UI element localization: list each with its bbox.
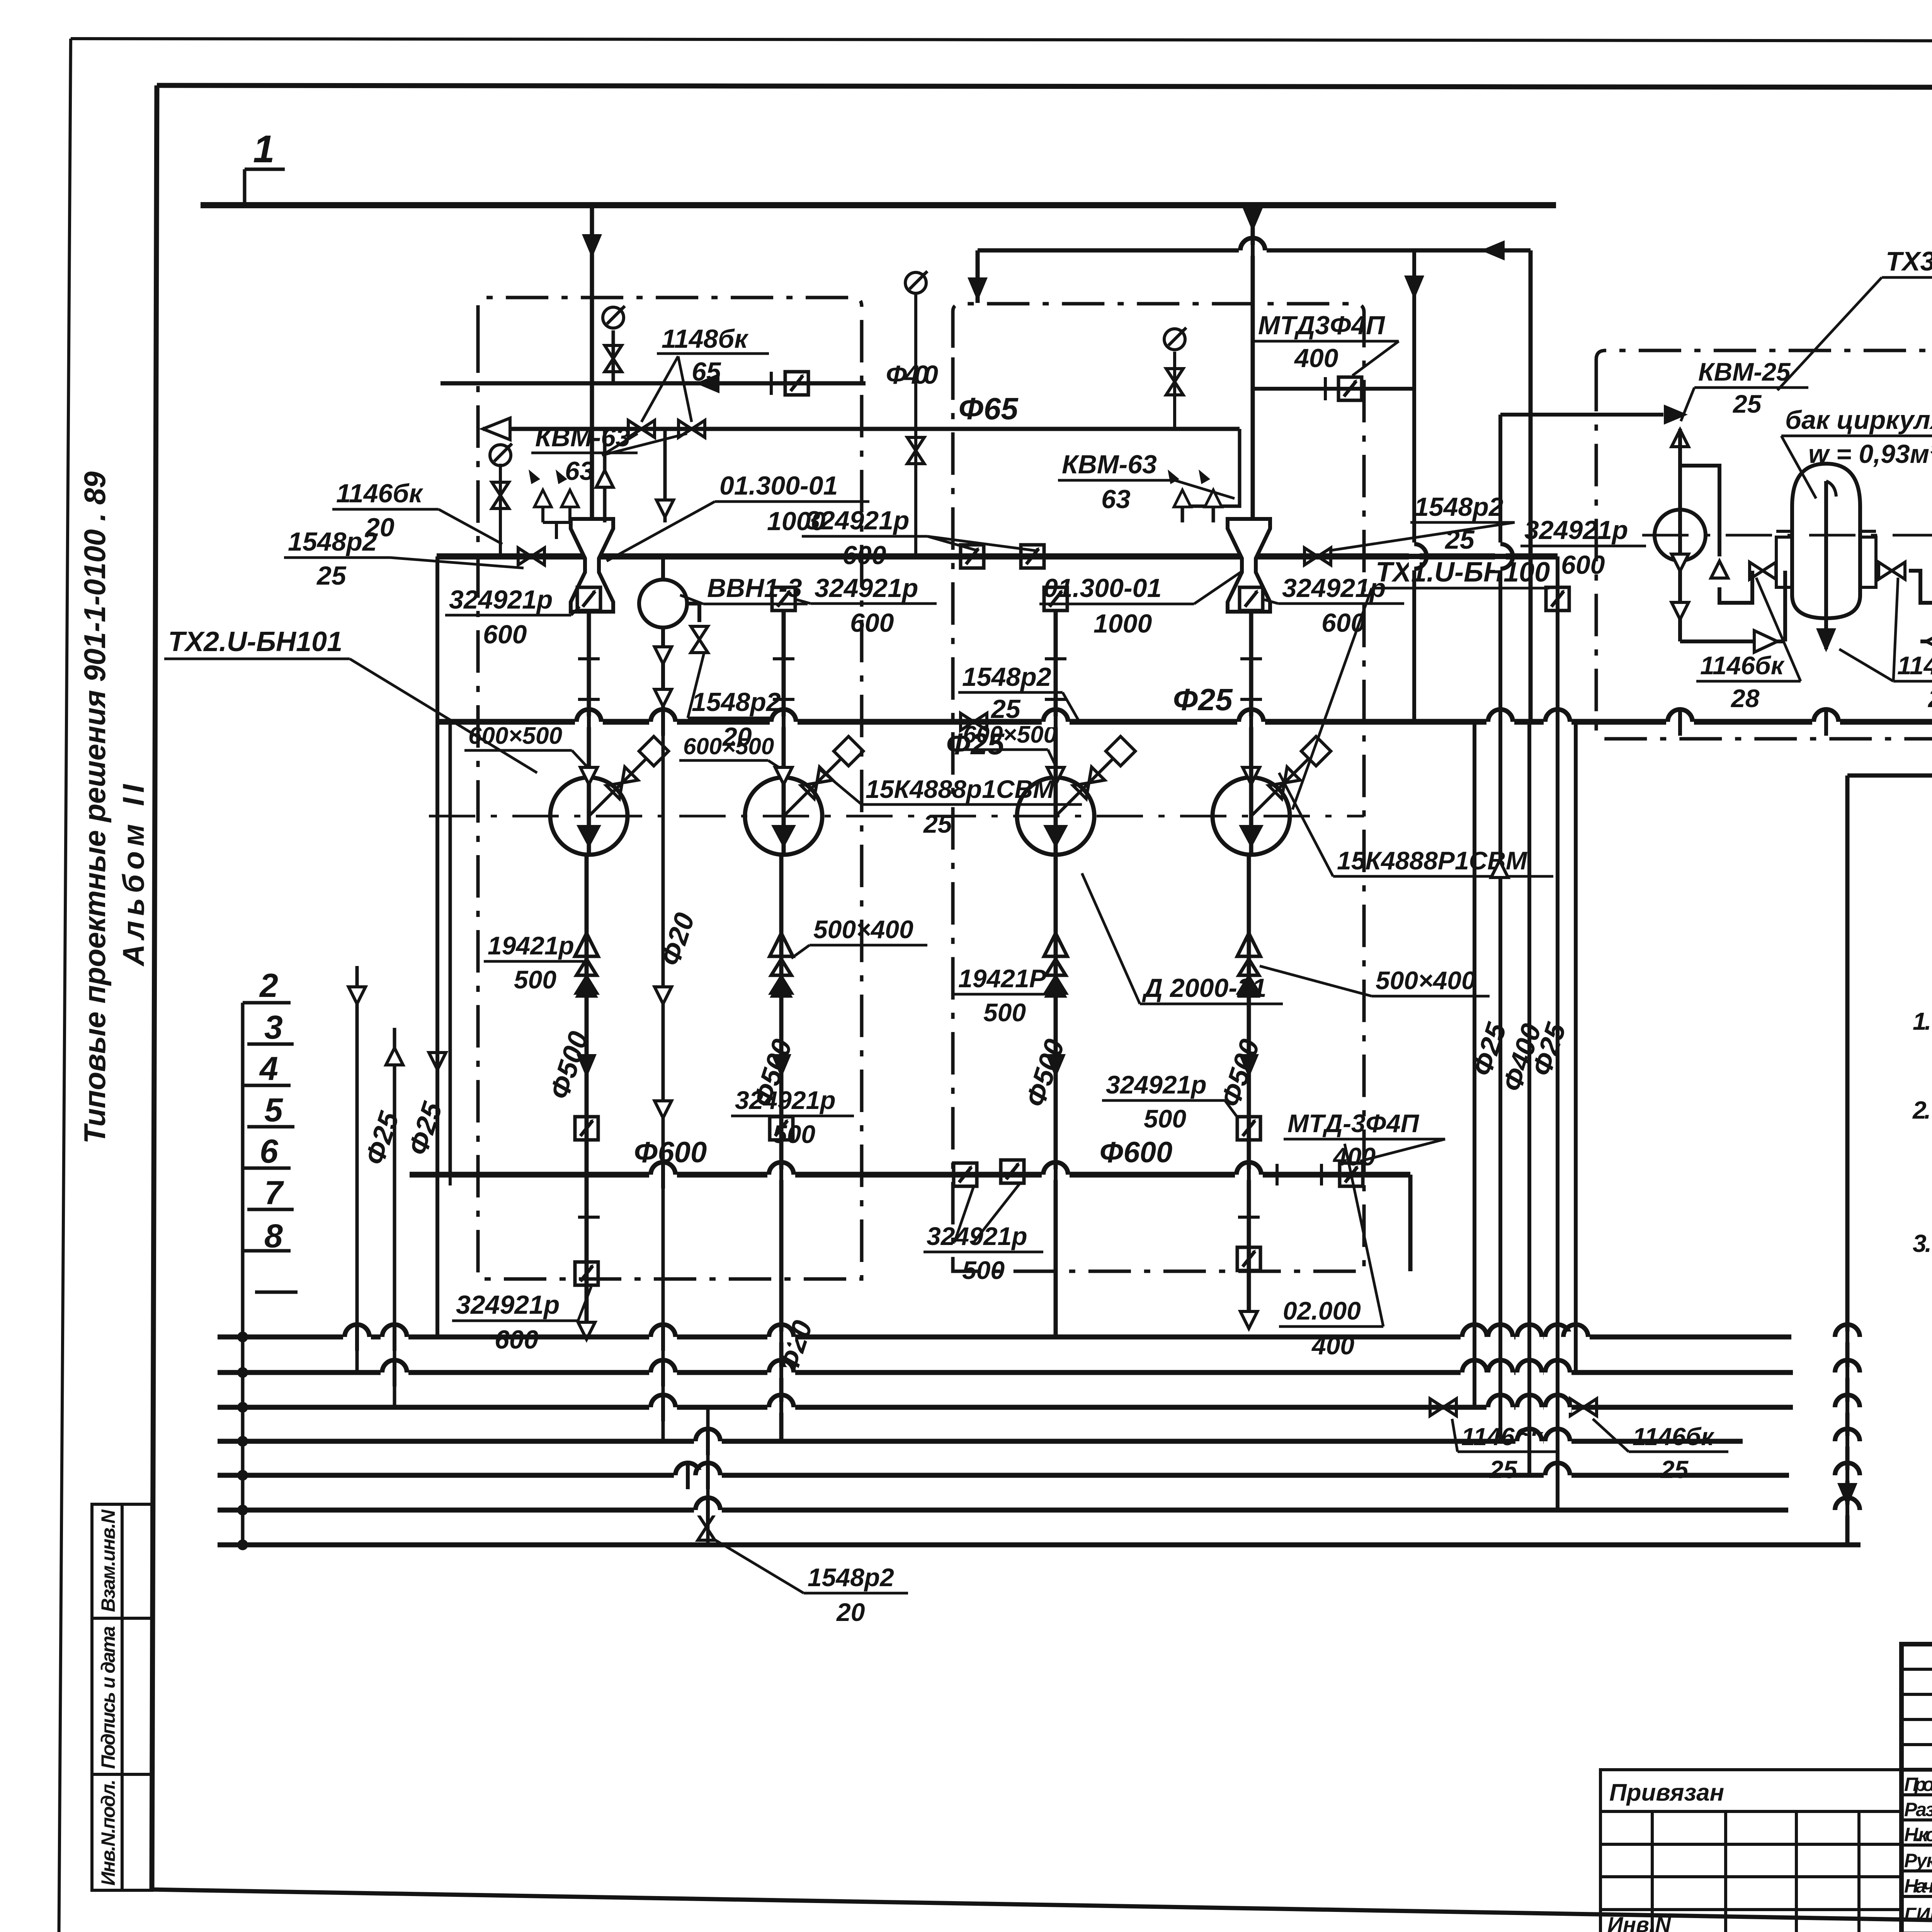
small triangles cluster (534, 490, 551, 507)
svg-text:25: 25 (923, 810, 952, 838)
svg-text:500: 500 (1144, 1104, 1186, 1133)
svg-text:3. Состав блоков и ведомость т: 3. Состав блоков и ведомость трубопровод… (1913, 1230, 1932, 1257)
P4 outlet pipe down (1247, 855, 1251, 1320)
wire drop to konfuzor U2 (from top frame) (1251, 205, 1255, 522)
svg-text:1. Данная блок-схема приведена: 1. Данная блок-схема приведена для макси… (1913, 1007, 1932, 1035)
node 1 flag riser (243, 169, 247, 205)
label 1148bk/65 (641, 324, 769, 422)
svg-text:2: 2 (259, 967, 278, 1004)
label 15K4888R1CBM block2 (1279, 773, 1553, 876)
konfuzor U2 (1228, 519, 1270, 612)
pump left inner triangle (1672, 554, 1689, 571)
svg-text:Типовые проектные решения 901-: Типовые проектные решения 901-1-0100 . 8… (78, 471, 112, 1144)
wire hop phi600 (649, 1161, 677, 1189)
left stamp column (92, 1504, 152, 1890)
wire hop bus (1544, 1359, 1571, 1386)
valve 1548r2/20 on BBH branch (691, 626, 708, 653)
svg-text:1548р2: 1548р2 (1414, 492, 1503, 522)
svg-text:400: 400 (1294, 344, 1338, 373)
svg-text:324921р: 324921р (449, 585, 553, 614)
wire hop bus (343, 1323, 371, 1351)
riser R2 (1473, 722, 1476, 1407)
svg-text:20: 20 (836, 1598, 865, 1626)
svg-text:ТХ3.U-БВак Ш.103: ТХ3.U-БВак Ш.103 (1886, 246, 1932, 276)
arrow on branch (1404, 276, 1424, 299)
wire hop bus (767, 1359, 795, 1386)
P1 second flow device (575, 1262, 598, 1285)
label 324921p/500 under pair (923, 1183, 1043, 1284)
label 1548r2/25 top-right (1329, 492, 1515, 554)
wire hop return/drop2 (1239, 236, 1267, 264)
KBM-63 valves pair block1 (628, 420, 655, 437)
P1 internal arrow (577, 825, 601, 848)
svg-text:1146бк: 1146бк (1897, 651, 1932, 680)
svg-text:63: 63 (565, 456, 594, 486)
P3 slanted probe (1056, 736, 1135, 816)
wire hop bus (1544, 1393, 1571, 1421)
valve 1548r2/20 on bus6 (698, 1514, 715, 1540)
wire hop bus (649, 1323, 677, 1351)
valve 1146bk/25 on bus3 right (1570, 1399, 1597, 1416)
wire hop phi600 (767, 1161, 795, 1189)
arrow into KBM-25 left (1664, 405, 1688, 425)
wire hop phi600 (1235, 1161, 1263, 1189)
label 600x500 P1 (464, 723, 587, 767)
svg-text:w = 0,93м³: w = 0,93м³ (1808, 439, 1932, 469)
pump P4 (1213, 777, 1290, 855)
right tank pump assembly (1909, 429, 1932, 722)
svg-text:63: 63 (1101, 485, 1131, 514)
ticks on phi600 (450, 1164, 1321, 1217)
label 1548r2/25 left (284, 527, 524, 590)
drop pipe P3 (1054, 612, 1058, 784)
P4 check valve (1237, 933, 1260, 998)
svg-text:600: 600 (850, 608, 894, 638)
svg-text:1548р2: 1548р2 (808, 1563, 894, 1592)
drop P3 flow device (1044, 587, 1067, 611)
tick P3 (1045, 657, 1066, 660)
svg-text:600: 600 (1561, 550, 1605, 580)
left tank pump riser (1680, 429, 1785, 641)
triangle on BBH drop (655, 987, 672, 1004)
P4 internal arrow (1239, 825, 1264, 848)
tick P4 (1240, 657, 1262, 660)
label 19421P/500 P3 (954, 964, 1051, 1027)
arrow on R3 (1491, 861, 1508, 878)
svg-text:28: 28 (1730, 684, 1760, 713)
svg-text:3: 3 (264, 1009, 283, 1046)
P2 outlet pipe down (779, 855, 784, 1441)
upper small rows (1901, 1668, 1932, 1671)
gauge G2 (490, 444, 512, 466)
riser B (393, 1028, 396, 1407)
valve below G2 (492, 482, 509, 509)
wire hop collector (1042, 708, 1070, 736)
P1 flow device lower (575, 1117, 598, 1140)
svg-text:КВМ-63: КВМ-63 (1062, 450, 1157, 479)
valve right of konfuzor U2 on header (1304, 548, 1331, 565)
pump P3 (1017, 777, 1094, 855)
wire hop bus (694, 1461, 722, 1489)
label TX3.U-BVak III.103 (1777, 246, 1932, 390)
svg-text:1146бк: 1146бк (1633, 1423, 1715, 1451)
P1 check valve (575, 933, 598, 998)
svg-text:600×500: 600×500 (683, 733, 774, 759)
P1 outlet pipe down (585, 855, 589, 1329)
flow arrows on outlet drops (577, 1054, 597, 1078)
outer sheet border (71, 39, 1932, 42)
wire hop collector (770, 708, 798, 736)
svg-text:1146бк: 1146бк (336, 479, 423, 508)
open arrow left end phi65 (483, 418, 510, 440)
branch to phi65 (1412, 250, 1416, 722)
svg-text:Рук.гр.: Рук.гр. (1904, 1850, 1932, 1871)
open arrow down on riser (656, 500, 673, 517)
label MTD-3F4P/400 bottom (1284, 1109, 1445, 1171)
MTD line y992 (1253, 387, 1414, 391)
svg-text:324921р: 324921р (806, 506, 909, 535)
svg-text:500: 500 (773, 1120, 815, 1148)
wire hop bus (1833, 1427, 1861, 1455)
svg-text:7: 7 (264, 1174, 284, 1211)
arrow on bottom link left (1754, 631, 1777, 652)
svg-text:Альбом II: Альбом II (116, 784, 150, 967)
drop pipe pump P1 (587, 612, 591, 784)
P4 slanted probe (1251, 736, 1331, 816)
wire hop bus (1833, 1359, 1861, 1386)
label 324921r/600 bottom left (452, 1287, 591, 1354)
arrow on drop 1 (582, 234, 602, 258)
tank outlet arrow (1816, 628, 1836, 652)
svg-text:25: 25 (990, 694, 1021, 724)
arrow into block 2 top (968, 277, 988, 301)
svg-text:МТД3Φ4П: МТД3Φ4П (1258, 311, 1386, 340)
riser R4 (1527, 722, 1531, 1475)
wire hop bus (1486, 1393, 1514, 1421)
wire drop to konfuzor U1 (590, 205, 594, 522)
svg-text:01.300-01: 01.300-01 (719, 471, 838, 500)
corner from phi600 down (1408, 1175, 1413, 1271)
svg-text:1000: 1000 (1094, 609, 1152, 638)
svg-text:324921р: 324921р (456, 1290, 560, 1320)
wire hop bus (1515, 1427, 1543, 1455)
right return path (1847, 339, 1932, 1545)
svg-text:500: 500 (962, 1256, 1005, 1284)
label 600x500 P3 (959, 721, 1057, 766)
wire hop bus (1833, 1393, 1861, 1421)
svg-text:МТД-3Φ4П: МТД-3Φ4П (1287, 1109, 1420, 1138)
gauge over block2 left (914, 294, 917, 556)
P3 squares pair on phi600 (954, 1163, 977, 1186)
drop pipe P4 (1249, 612, 1253, 784)
riser A (355, 966, 359, 1372)
label 1146bk/20 left (332, 479, 502, 544)
arrow on bottom link right (1926, 631, 1932, 652)
label 324921r/500 P4 (1102, 1070, 1238, 1133)
label 19421r/500 P1 (484, 931, 583, 994)
wire hop bus (1833, 1496, 1861, 1524)
wire hop header (1486, 543, 1514, 570)
label 324921r/600 P4 (1264, 573, 1404, 638)
svg-text:1548р2: 1548р2 (288, 527, 377, 556)
label 1146bk/25 bottom-left (1452, 1419, 1557, 1483)
tank pump left (1655, 510, 1706, 561)
label 15K4888r1SBM/25 block1 (819, 769, 1082, 838)
svg-text:25: 25 (1732, 389, 1762, 418)
svg-text:4: 4 (259, 1050, 278, 1087)
wire hop phi600 (1042, 1161, 1070, 1189)
svg-text:Φ65: Φ65 (958, 391, 1019, 426)
squares pair on header block2 (961, 545, 984, 568)
arrow on drop 2 (1243, 208, 1263, 232)
wire hop collector (575, 708, 603, 736)
P3 outlet pipe down (1054, 855, 1058, 1337)
valve right of tank (1879, 562, 1905, 579)
wire hop bus (767, 1393, 795, 1421)
flow device far right of header (1546, 587, 1569, 611)
P2 internal arrow (771, 825, 796, 848)
svg-text:25: 25 (316, 561, 347, 590)
tick before MTD square (1324, 377, 1327, 400)
label 600x500 P2 (679, 733, 781, 769)
P2 flow device (770, 1117, 793, 1140)
riser pair near bottom left (706, 1407, 710, 1545)
svg-text:8: 8 (264, 1218, 283, 1255)
svg-text:25: 25 (1489, 1456, 1518, 1483)
triangles on BBH pipe (655, 647, 672, 664)
wire hop bus (381, 1323, 408, 1351)
konfuzor U1 01.300-01 (571, 519, 613, 612)
riser from phi65 to konfuzor U1 with open arrow (603, 429, 607, 522)
svg-text:600×500: 600×500 (468, 723, 562, 749)
svg-text:500: 500 (983, 998, 1026, 1027)
svg-text:Φ25: Φ25 (1173, 682, 1233, 717)
wire hop header (1400, 543, 1428, 570)
wire hop bus (1544, 1427, 1571, 1455)
P3 internal arrow (1043, 825, 1068, 848)
KBM-25 left valve triangle (1672, 430, 1689, 447)
wire hop bus (1461, 1323, 1488, 1351)
svg-text:Инв.N: Инв.N (1607, 1912, 1671, 1932)
svg-text:ТХ1.U-БН100: ТХ1.U-БН100 (1376, 557, 1550, 588)
label 324921r/600 right pair (1520, 515, 1646, 580)
label tank (1781, 405, 1932, 498)
flow device right column block1 (772, 587, 795, 611)
svg-text:Взам.инв.N: Взам.инв.N (97, 1509, 119, 1612)
label KBM-25/25 left (1681, 357, 1808, 421)
svg-text:25: 25 (1660, 1456, 1689, 1483)
triangle below pump left (1672, 602, 1689, 619)
wire hop collector (1237, 708, 1265, 736)
svg-text:324921р: 324921р (1282, 573, 1386, 603)
junction dots on left collector (237, 1332, 248, 1550)
gauge assembly on phi400 riser (612, 330, 615, 383)
vacuum pump BBH1-3 (639, 556, 699, 722)
P4 end arrow (1240, 1311, 1257, 1328)
wire hop bus (1461, 1359, 1488, 1386)
wire hop bus (674, 1461, 702, 1489)
KBM-63 cluster block2 (1182, 429, 1240, 522)
valve below gauge G1 (605, 345, 622, 372)
svg-text:1548р2: 1548р2 (692, 687, 781, 717)
wire hop bus (1544, 1461, 1571, 1489)
svg-text:1146бк: 1146бк (1700, 651, 1785, 680)
svg-text:Привязан: Привязан (1609, 1779, 1724, 1806)
P4 flow device upper (1237, 1117, 1260, 1140)
P1 end arrow (578, 1322, 595, 1339)
svg-text:Проверил: Проверил (1904, 1774, 1932, 1795)
wire hop collector (1666, 708, 1694, 736)
svg-text:19421р: 19421р (488, 931, 574, 960)
svg-text:2. При установке насосных агре: 2. При установке насосных агрегатов марк… (1912, 1096, 1932, 1124)
label KBM-63/63 block2 (1058, 450, 1235, 514)
svg-text:02.000: 02.000 (1283, 1296, 1361, 1325)
tick on P2 drop (773, 657, 794, 660)
gauge 1146bk/20 block2 (1173, 352, 1176, 429)
label 01.300-01/1000 block2 (1039, 572, 1241, 638)
wire hop bus (1486, 1359, 1514, 1386)
svg-text:500×400: 500×400 (813, 915, 913, 944)
pump axis dash-dot (429, 815, 1364, 818)
wire hop bus (694, 1496, 722, 1524)
P1 slanted probe (589, 736, 668, 816)
block boundary (1596, 350, 1932, 739)
P2 inlet triangle (775, 767, 792, 784)
flow device on phi400 (785, 372, 808, 395)
svg-text:Инв.N.подл.: Инв.N.подл. (97, 1779, 119, 1886)
svg-text:25: 25 (1927, 684, 1932, 713)
svg-text:600: 600 (495, 1325, 539, 1354)
riser R5 (1556, 556, 1560, 1510)
svg-text:Подпись и дата: Подпись и дата (97, 1626, 119, 1769)
wire hop bus (767, 1323, 795, 1351)
label 1548r2/20 (688, 653, 792, 752)
wire hop bus (1833, 1461, 1861, 1489)
svg-text:500: 500 (514, 965, 556, 994)
svg-text:400: 400 (1332, 1142, 1376, 1171)
label 01.300-01/1000 (607, 471, 869, 561)
label 02.000/400 (1279, 1144, 1383, 1360)
svg-text:1: 1 (253, 128, 275, 171)
wire hop bus (1515, 1323, 1543, 1351)
label TX1.U-BN100 (1293, 557, 1550, 810)
wire hop bus (1833, 1323, 1861, 1351)
triangle on riser 4450 (1711, 561, 1728, 578)
P4 inlet triangle (1243, 767, 1260, 784)
P4 flow device lower (1237, 1247, 1260, 1270)
svg-text:65: 65 (692, 357, 721, 386)
label 1146bk/25 bottom-right (1593, 1419, 1728, 1483)
triangles block2 kbm (1174, 490, 1191, 507)
wire hop bus (1486, 1323, 1514, 1351)
valve on collector (961, 713, 987, 730)
tick pairs on collector (578, 698, 1262, 701)
svg-text:500×400: 500×400 (1376, 966, 1476, 995)
label 500x400 P2 (791, 915, 927, 958)
pump P2 (745, 777, 822, 855)
label MTD3F4P/400 top (1254, 311, 1399, 376)
pump P1 D2000-21 (550, 777, 628, 855)
svg-text:19421Р: 19421Р (958, 964, 1047, 993)
svg-text:Нач.отд: Нач.отд (1904, 1875, 1932, 1897)
riser R3 (1498, 415, 1502, 1441)
svg-text:КВМ-25: КВМ-25 (1698, 357, 1791, 386)
MTD square right on phi600 (1340, 1163, 1363, 1186)
arrow on riser B (386, 1048, 403, 1065)
feed line into tank block (1500, 413, 1663, 417)
label 324921r/600 right of P2 (797, 573, 937, 638)
return header (978, 250, 1531, 722)
wire hop bus (1515, 1359, 1543, 1386)
flow device on P1 drop (577, 587, 600, 611)
wire hop collector (1812, 708, 1840, 736)
gauge G1 (603, 306, 625, 328)
P3 inlet triangle (1047, 767, 1064, 784)
P1 inlet reducer triangle (580, 767, 597, 784)
svg-text:324921р: 324921р (815, 573, 918, 603)
arrow down on right return (1837, 1483, 1857, 1507)
valve left of tank (1750, 562, 1776, 579)
P2 check valve (770, 933, 793, 998)
arrow on riser A (349, 987, 366, 1004)
svg-text:5: 5 (264, 1092, 283, 1129)
P2 slanted probe (784, 736, 863, 816)
wire hop bus (694, 1427, 722, 1455)
drop pipe pump P2 (782, 612, 786, 784)
left gauge with valve in block1 (499, 464, 502, 556)
svg-text:1148бк: 1148бк (662, 324, 749, 354)
svg-text:600: 600 (842, 541, 886, 570)
valve 1146bk/25 on bus3 left (1430, 1399, 1456, 1416)
svg-text:6: 6 (260, 1133, 279, 1170)
svg-text:Разраб: Разраб (1904, 1799, 1932, 1820)
inner drawing frame (157, 85, 1932, 88)
tank level mark (1826, 481, 1836, 497)
svg-text:600: 600 (1321, 608, 1366, 638)
gauge G4 (1164, 328, 1186, 350)
riser R6 (1574, 722, 1578, 1372)
valve below G4 (1166, 369, 1183, 395)
label 500x400 P4 (1260, 966, 1490, 996)
wire hop bus (1562, 1323, 1590, 1351)
wire hop bus (1515, 1393, 1543, 1421)
MTD flow device (1338, 377, 1362, 400)
P3 check valve (1044, 933, 1067, 998)
wire hop bus (649, 1393, 677, 1421)
labels 1146bk bottom pair in tank block (1696, 578, 1801, 713)
tick on P1 drop (578, 657, 600, 660)
arrow phi400 (696, 373, 719, 393)
svg-text:Φ600: Φ600 (1099, 1136, 1172, 1169)
main outline (1901, 1644, 1932, 1932)
label 1548r2/20 bottom (715, 1540, 908, 1626)
BBH drop line phi20 (662, 722, 665, 1441)
svg-text:324921р: 324921р (735, 1086, 836, 1114)
short branch pipes left of block1 (449, 722, 452, 1175)
tick on phi400 (770, 372, 773, 395)
svg-text:600: 600 (483, 620, 527, 649)
open arrow on BBH drop (655, 1101, 672, 1118)
label TX2.U-BN101 (164, 626, 537, 773)
gauge G3 (905, 271, 927, 293)
arrow on return header (1481, 240, 1505, 260)
svg-text:ГИП: ГИП (1904, 1904, 1932, 1925)
wire hop bus (381, 1359, 408, 1386)
label 324921r/500 P2 (731, 1086, 854, 1148)
person rows (1901, 1793, 1932, 1796)
label 1548r2/25 + phi25 mid (946, 662, 1078, 761)
wire hop collector (649, 708, 677, 736)
